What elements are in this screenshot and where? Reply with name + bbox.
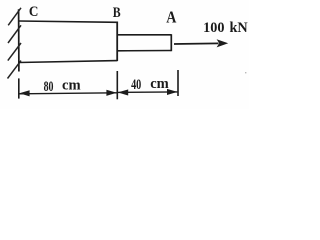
svg-text:100 kN: 100 kN (203, 20, 248, 36)
wall hatch 4 (8, 61, 22, 79)
scan speck (245, 72, 246, 73)
svg-text:A: A (166, 8, 176, 26)
force arrowhead (217, 39, 229, 47)
dim arrowhead right at A (167, 89, 177, 95)
dimension tick at A (177, 70, 179, 96)
thick bar right edge at B (116, 22, 118, 62)
svg-text:C: C (29, 3, 39, 20)
thick bar C-B bottom edge (19, 61, 118, 63)
svg-text:cm: cm (62, 77, 81, 93)
dim arrowhead left at B (118, 89, 128, 95)
dimension line 80 cm (19, 93, 116, 94)
dimension tick at B (116, 71, 118, 99)
wall hatch 2 (8, 25, 21, 43)
wall hatch 1 (8, 8, 21, 26)
dim arrowhead left at C (19, 90, 29, 96)
svg-text:cm: cm (150, 76, 169, 92)
wall line (18, 9, 20, 71)
svg-text:80: 80 (44, 78, 54, 95)
thick bar C-B top edge (19, 21, 118, 22)
small bar B-A bottom edge (117, 50, 171, 52)
svg-text:B: B (113, 4, 121, 21)
svg-text:40: 40 (131, 76, 141, 92)
dimension line 40 cm (118, 91, 178, 94)
dimension tick at C (18, 78, 20, 98)
force arrow shaft (174, 42, 219, 45)
small bar B-A top edge (117, 34, 171, 36)
dim arrowhead right at B (106, 90, 116, 96)
wall hatch 3 (8, 43, 21, 61)
small bar right edge at A (170, 34, 172, 51)
